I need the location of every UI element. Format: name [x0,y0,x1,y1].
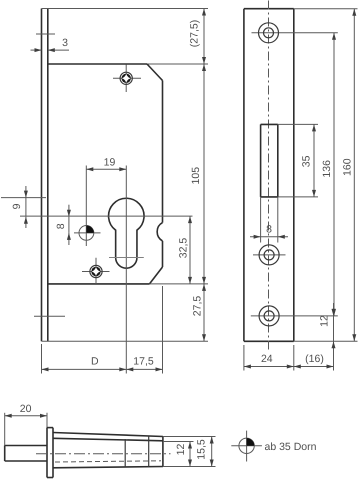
svg-text:19: 19 [104,157,116,169]
hole H1 crosshair [74,166,101,247]
svg-text:20: 20 [20,403,32,415]
faceplate bar cross-section [47,413,53,478]
dimension 12 (strike) [318,303,335,371]
lock case bottom edge with extension [48,283,208,285]
lock case top chamfer [147,64,163,81]
screw M2 crosshair [82,258,110,284]
dimension 19 [86,157,126,172]
lock case top edge with extension [48,63,208,65]
dimension 8 (cutout width) [250,224,288,239]
dimension 15,5 [196,437,214,467]
dimension 3 (faceplate thickness) [31,37,70,52]
svg-text:8: 8 [266,224,272,236]
svg-text:12: 12 [175,444,187,456]
dimension 24 extension lines [244,345,294,371]
faceplate bottom edge with extension line [42,340,209,342]
hole H1 circle with filled quarter [79,225,94,240]
svg-text:17,5: 17,5 [133,356,154,368]
dimension D and 17,5 extension lines [42,286,163,374]
svg-text:8: 8 [55,223,67,229]
dimension 17,5 [126,356,162,372]
keyhole stem arc center tick [109,257,144,259]
svg-text:15,5: 15,5 [196,439,208,460]
bolt body top outer edge [53,433,163,437]
dimension 9 [11,186,28,228]
bolt cutout top edge with extension [261,123,318,125]
dimension 32,5 [178,216,193,284]
strike plate left edge [243,9,245,342]
svg-text:3: 3 [62,37,68,49]
strike plate bottom edge with extension [244,340,358,342]
variable position symbol crosshair [231,431,262,462]
svg-text:9: 9 [11,203,23,209]
svg-text:105: 105 [190,167,202,185]
strike plate right edge [293,9,295,342]
bolt body step line [148,436,150,467]
lock case right edge upper [162,81,164,223]
bolt body top inner edge [53,438,163,441]
svg-text:32,5: 32,5 [178,238,190,259]
euro profile cylinder keyhole [109,198,145,268]
cylinder horizontal centerline [20,215,193,217]
svg-text:(27,5): (27,5) [188,20,200,47]
bolt cutout bottom edge with extension [261,196,318,198]
bolt cutout left edge [260,124,262,196]
dimension (27,5) upper right [188,9,206,65]
dimension (16) [294,353,334,369]
bolt head box [5,413,47,461]
svg-text:35: 35 [301,155,313,167]
strike hole bottom [259,306,279,326]
dimension 12 (bolt) extension lines [163,437,216,467]
faceplate left edge [41,9,43,342]
cylinder vertical centerline [125,166,127,374]
strike plate top edge with extension [244,8,358,10]
svg-text:160: 160 [342,158,354,176]
bolt cutout right edge [277,124,279,196]
dimension 35 [301,124,316,196]
lock case bottom chamfer [150,267,163,284]
dimension 27,5 lower right [192,284,207,341]
note ab 35 Dorn [265,441,317,453]
strike hole bottom crosshair [251,315,338,317]
dimension 8 (cutout width) extension lines [261,197,278,243]
dimension 160 [342,9,357,342]
dimension 20 [5,403,47,418]
faceplate right edge [47,9,49,342]
faceplate screw hole tick bottom [34,315,65,317]
screw M1 crosshair [113,65,141,93]
strike hole top [259,23,279,43]
bolt centerline [36,453,171,455]
variable position symbol circle [239,438,254,453]
svg-text:27,5: 27,5 [192,296,204,317]
svg-text:(16): (16) [305,353,324,365]
svg-text:24: 24 [261,353,273,365]
faceplate screw hole tick top [36,33,55,35]
lock case follower notch [157,223,162,241]
faceplate top edge with extension line [42,8,209,10]
dimension 12 (bolt) [175,442,192,467]
svg-text:12: 12 [318,315,330,327]
dimension 136 [321,33,336,316]
screw M1 head [120,72,132,84]
dimension 24 [244,353,294,369]
strike hole top crosshair [252,32,338,34]
svg-text:ab 35 Dorn: ab 35 Dorn [265,441,317,453]
bolt body end edge [162,437,164,467]
keyhole top extension line for dim 9 [1,197,46,199]
screw M2 head [90,265,102,277]
strike hole middle crosshair [253,254,286,256]
bolt hidden edge dashed [55,461,161,462]
dimension D [42,356,127,372]
dimension 105 right [190,64,206,284]
svg-text:136: 136 [321,160,333,178]
strike hole middle [259,245,279,265]
strike plate centerline [268,1,270,353]
dimension 8 (cylinder to hole) [55,205,71,245]
bolt body bottom edge [53,467,163,468]
lock case right edge lower [162,241,164,267]
svg-text:D: D [91,356,99,368]
bolt body line at cylinder position [124,439,126,467]
